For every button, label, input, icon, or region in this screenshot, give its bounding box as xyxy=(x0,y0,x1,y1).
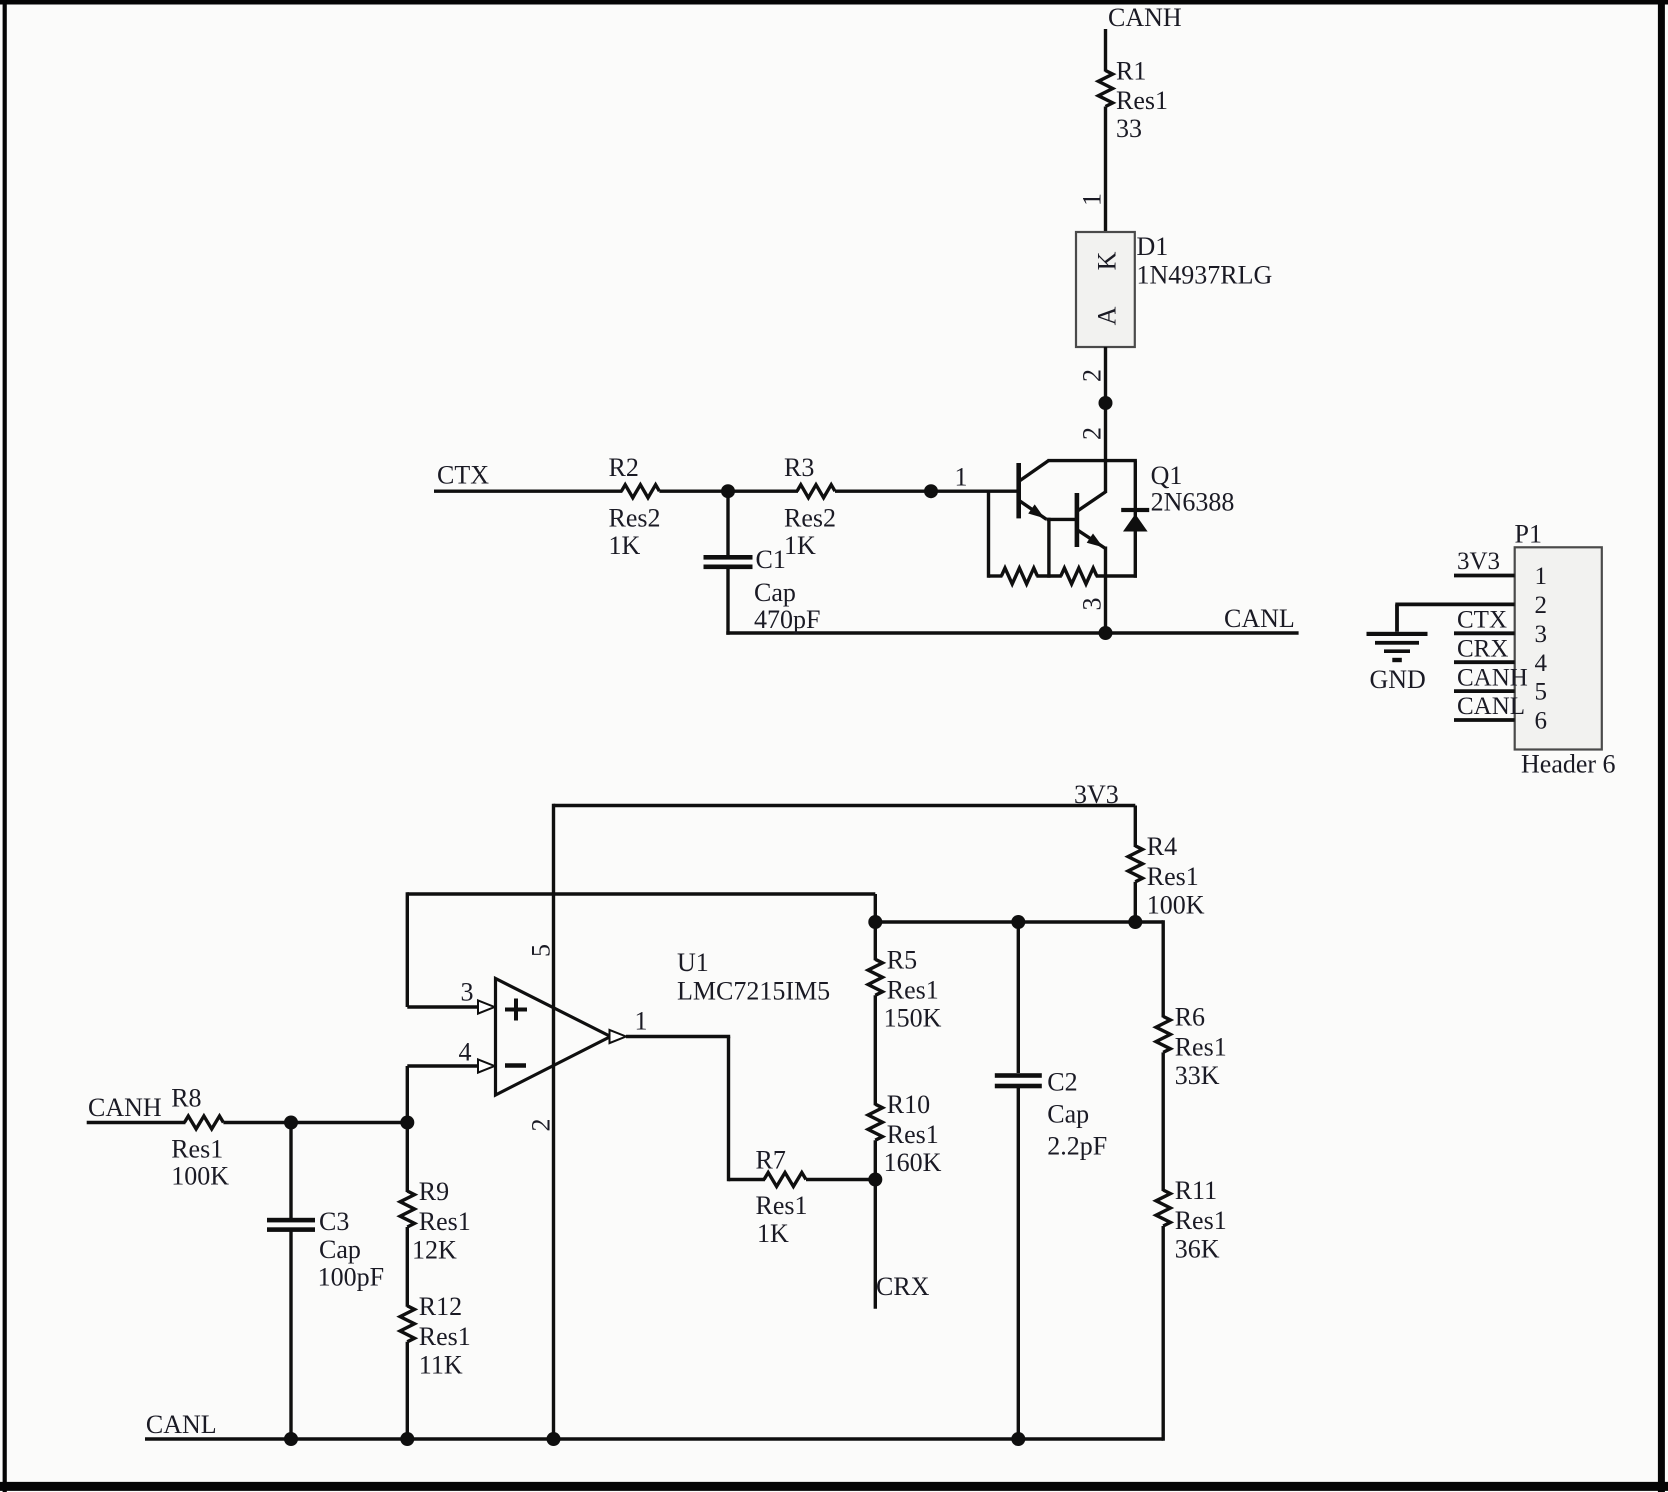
wire R1 to D1 pin1 xyxy=(1104,107,1107,234)
pin 3 (U1) xyxy=(461,978,474,1007)
label P1 xyxy=(1515,520,1542,549)
svg-text:R12: R12 xyxy=(419,1292,462,1321)
svg-text:1K: 1K xyxy=(784,531,816,560)
svg-text:1K: 1K xyxy=(757,1219,789,1248)
label Res1 (R5) xyxy=(887,975,939,1004)
svg-text:Res1: Res1 xyxy=(1175,1032,1227,1061)
wire feedback top xyxy=(407,892,875,895)
wire C3 to CANL xyxy=(289,1231,292,1439)
value 2N6388 (Q1) xyxy=(1151,488,1235,517)
wire R11 to CANL xyxy=(1161,1226,1164,1441)
label Res1 (R1) xyxy=(1116,86,1168,115)
svg-text:3: 3 xyxy=(1078,598,1107,611)
value 33K (R6) xyxy=(1175,1061,1220,1090)
net CANH (top) xyxy=(1108,3,1182,32)
svg-text:R3: R3 xyxy=(784,453,814,482)
label R9 xyxy=(419,1177,449,1206)
label R7 xyxy=(756,1146,786,1175)
resistor R11 xyxy=(1156,1190,1170,1226)
junction node R9 top xyxy=(400,1116,414,1130)
pin 3 arrow (U1) xyxy=(478,1000,495,1013)
label C1 xyxy=(756,545,786,574)
svg-text:12K: 12K xyxy=(412,1236,457,1265)
resistor R8 xyxy=(184,1116,223,1129)
Q1 internal resistor 2 xyxy=(1061,568,1097,584)
junction node C3 top xyxy=(284,1116,298,1130)
svg-text:R7: R7 xyxy=(756,1146,786,1175)
wire R9 to R12 xyxy=(406,1227,409,1307)
wire node to R9 xyxy=(406,1123,409,1193)
junction node C2 top xyxy=(1011,915,1025,929)
wire R3 to node xyxy=(835,490,931,493)
pin 5 (P1) xyxy=(1535,679,1548,706)
transistor Q1 T1 base bar xyxy=(1016,463,1021,518)
wire P1 pin 5 xyxy=(1454,689,1515,693)
svg-text:1K: 1K xyxy=(609,531,641,560)
label R1 xyxy=(1116,57,1146,86)
label Res1 (R12) xyxy=(419,1322,471,1351)
wire rail to R5 xyxy=(874,922,877,960)
svg-text:33K: 33K xyxy=(1175,1061,1220,1090)
pin 5 (U1 V+) xyxy=(527,944,556,957)
svg-text:R10: R10 xyxy=(887,1090,930,1119)
wire P1 pin 4 xyxy=(1454,660,1515,664)
svg-text:1N4937RLG: 1N4937RLG xyxy=(1137,261,1273,290)
resistor R7 xyxy=(764,1173,806,1187)
net CANL (top) xyxy=(1224,604,1295,633)
svg-text:LMC7215IM5: LMC7215IM5 xyxy=(677,977,830,1006)
svg-text:R2: R2 xyxy=(609,453,639,482)
capacitor C2 xyxy=(995,1073,1042,1088)
value 100K (R8) xyxy=(171,1162,229,1191)
svg-text:P1: P1 xyxy=(1515,520,1542,549)
svg-text:R9: R9 xyxy=(419,1177,449,1206)
junction node C3 bottom xyxy=(284,1432,298,1446)
pin name K (D1 cathode) xyxy=(1093,251,1122,270)
value 36K (R11) xyxy=(1175,1235,1220,1264)
value LMC7215IM5 (U1) xyxy=(677,977,830,1006)
svg-text:Q1: Q1 xyxy=(1151,461,1183,490)
label U1 xyxy=(677,948,709,977)
svg-text:3: 3 xyxy=(1535,621,1548,648)
svg-text:Res1: Res1 xyxy=(419,1322,471,1351)
svg-text:C3: C3 xyxy=(319,1207,349,1236)
junction node D1/Q1 xyxy=(1099,396,1113,410)
op-amp minus xyxy=(505,1063,526,1068)
svg-text:Header 6: Header 6 xyxy=(1521,750,1616,779)
value 470pF (C1) xyxy=(754,605,820,634)
svg-text:1: 1 xyxy=(1535,563,1548,590)
value 1N4937RLG (D1) xyxy=(1137,261,1273,290)
junction node R7/R10 xyxy=(868,1173,882,1187)
svg-text:D1: D1 xyxy=(1137,232,1169,261)
Q1 T2 emitter xyxy=(1078,530,1106,548)
wire CANL xyxy=(145,1437,1163,1440)
junction node R12 bottom xyxy=(400,1432,414,1446)
resistor R12 xyxy=(400,1306,414,1342)
label Res1 (R10) xyxy=(887,1120,939,1149)
op-amp U1 body xyxy=(496,979,611,1096)
svg-text:Cap: Cap xyxy=(319,1235,361,1264)
resistor R3 xyxy=(797,485,835,498)
ground symbol xyxy=(1367,632,1428,662)
diode D1 body xyxy=(1076,232,1135,347)
pin 3 (Q1 emitter) xyxy=(1078,598,1107,611)
value 100K (R4) xyxy=(1147,891,1205,920)
svg-text:33: 33 xyxy=(1116,114,1142,143)
wire P1 pin 1 xyxy=(1454,574,1515,578)
svg-text:11K: 11K xyxy=(419,1350,463,1379)
label Cap (C3) xyxy=(319,1235,361,1264)
svg-text:R11: R11 xyxy=(1175,1176,1217,1205)
wire R7 to node xyxy=(806,1178,875,1181)
pin 2 (D1) xyxy=(1078,369,1107,382)
wire U1 pin3 input xyxy=(407,1005,479,1008)
label Res1 (R8) xyxy=(171,1135,223,1164)
junction node C2 bottom xyxy=(1011,1432,1025,1446)
pin 1 (U1) xyxy=(635,1007,648,1036)
svg-text:A: A xyxy=(1093,306,1122,325)
wire T1 emitter to T2 base xyxy=(1047,518,1077,521)
wire CANH to R1 xyxy=(1104,29,1107,72)
wire pin4 drop to CANH node xyxy=(406,1066,409,1123)
svg-text:Res2: Res2 xyxy=(609,504,661,533)
label Cap (C1) xyxy=(754,578,796,607)
label R6 xyxy=(1175,1002,1205,1031)
svg-text:CANH: CANH xyxy=(1457,664,1528,691)
capacitor C3 xyxy=(267,1218,315,1232)
svg-text:Res1: Res1 xyxy=(887,1120,939,1149)
svg-text:4: 4 xyxy=(459,1038,472,1067)
label C2 xyxy=(1047,1068,1077,1097)
label R2 xyxy=(609,453,639,482)
svg-text:GND: GND xyxy=(1370,665,1426,694)
junction node R4 bottom xyxy=(1128,915,1142,929)
label GND xyxy=(1370,665,1426,694)
Q1 T1 collector xyxy=(1020,461,1137,481)
svg-text:C2: C2 xyxy=(1047,1068,1077,1097)
svg-text:R6: R6 xyxy=(1175,1002,1205,1031)
label R3 xyxy=(784,453,814,482)
wire D1 to Q1 collector xyxy=(1104,347,1107,493)
svg-text:CTX: CTX xyxy=(1457,607,1507,634)
net CRX (stub) xyxy=(876,1272,930,1301)
net CANH (bottom) xyxy=(88,1093,162,1122)
label R10 xyxy=(887,1090,930,1119)
svg-text:CRX: CRX xyxy=(876,1272,930,1301)
wire T1 emitter drop xyxy=(1047,518,1050,578)
svg-text:C1: C1 xyxy=(756,545,786,574)
wire Q1 diode branch xyxy=(1134,461,1137,578)
svg-text:CANL: CANL xyxy=(1457,693,1525,720)
svg-text:CTX: CTX xyxy=(437,461,489,490)
wire R12 to CANL xyxy=(406,1342,409,1439)
connector P1 body xyxy=(1515,547,1602,749)
label D1 xyxy=(1137,232,1169,261)
Q1 T2 collector xyxy=(1078,492,1106,511)
label R5 xyxy=(887,945,917,974)
wire comparator rail xyxy=(875,920,1163,923)
svg-text:2: 2 xyxy=(1078,427,1107,440)
label Res1 (R11) xyxy=(1175,1206,1227,1235)
svg-text:100pF: 100pF xyxy=(318,1263,384,1292)
Q1 internal resistor 1 xyxy=(1001,568,1037,584)
svg-text:R8: R8 xyxy=(171,1084,201,1113)
svg-text:160K: 160K xyxy=(884,1148,942,1177)
pin 2 (U1 V-) xyxy=(527,1119,556,1132)
wire R6 to R11 xyxy=(1161,1052,1164,1191)
Q1 internal diode xyxy=(1123,514,1148,532)
wire CANH to R8 xyxy=(87,1121,186,1124)
svg-text:Res1: Res1 xyxy=(1175,1206,1227,1235)
resistor R1 xyxy=(1098,71,1112,107)
capacitor C1 xyxy=(704,555,753,569)
wire 3V3 to R4 xyxy=(1134,806,1137,848)
wire R4 to rail xyxy=(1134,882,1137,922)
svg-text:5: 5 xyxy=(1535,679,1548,706)
svg-text:6: 6 xyxy=(1535,708,1548,735)
label R4 xyxy=(1147,832,1177,861)
svg-text:Res1: Res1 xyxy=(1116,86,1168,115)
resistor R6 xyxy=(1156,1016,1170,1052)
wire rail to C2 xyxy=(1017,922,1020,1073)
junction node supply bottom xyxy=(547,1432,561,1446)
svg-text:2: 2 xyxy=(1535,592,1548,619)
label Res1 (R7) xyxy=(756,1191,808,1220)
wire node to C3 xyxy=(289,1123,292,1223)
junction node R5 top xyxy=(868,915,882,929)
svg-text:2.2pF: 2.2pF xyxy=(1047,1132,1107,1161)
pin 2 (P1) xyxy=(1535,592,1548,619)
net CTX (P1) xyxy=(1457,607,1507,634)
pin 2 (Q1 collector) xyxy=(1078,427,1107,440)
label Res2 (R3) xyxy=(784,504,836,533)
value 1K (R7) xyxy=(757,1219,789,1248)
net CTX xyxy=(437,461,489,490)
svg-text:1: 1 xyxy=(635,1007,648,1036)
wire R10 to CRX stub xyxy=(874,1140,877,1309)
svg-text:CRX: CRX xyxy=(1457,635,1508,662)
wire P1 pin 3 xyxy=(1454,631,1515,635)
svg-text:Res1: Res1 xyxy=(756,1191,808,1220)
svg-text:100K: 100K xyxy=(1147,891,1205,920)
svg-text:CANL: CANL xyxy=(1224,604,1295,633)
svg-text:Res2: Res2 xyxy=(784,504,836,533)
value 100pF (C3) xyxy=(318,1263,384,1292)
wire 3V3 rail xyxy=(554,804,1136,807)
svg-text:U1: U1 xyxy=(677,948,709,977)
svg-text:CANL: CANL xyxy=(146,1410,217,1439)
svg-text:4: 4 xyxy=(1535,650,1548,677)
resistor R4 xyxy=(1128,846,1142,882)
resistor R9 xyxy=(400,1191,414,1227)
svg-text:R5: R5 xyxy=(887,945,917,974)
label R11 xyxy=(1175,1176,1217,1205)
svg-text:2: 2 xyxy=(527,1119,556,1132)
wire feedback left drop xyxy=(406,892,409,1007)
svg-text:R1: R1 xyxy=(1116,57,1146,86)
svg-text:Cap: Cap xyxy=(1047,1100,1089,1129)
wire R8 to nodes xyxy=(223,1121,407,1124)
label Header 6 (P1) xyxy=(1521,750,1616,779)
wire Q1 emitter to CANL xyxy=(1104,547,1107,634)
pin 6 (P1) xyxy=(1535,708,1548,735)
junction node R2/R3/C1 xyxy=(721,484,735,498)
pin 1 (Q1 base) xyxy=(955,463,968,492)
wire U1 output xyxy=(626,1037,765,1182)
svg-text:36K: 36K xyxy=(1175,1235,1220,1264)
wire C2 to CANL xyxy=(1017,1088,1020,1439)
wire C1 to CANL xyxy=(726,568,1298,635)
pin 4 (P1) xyxy=(1535,650,1548,677)
value 2.2pF (C2) xyxy=(1047,1132,1107,1161)
wire CTX to R2 xyxy=(434,490,622,493)
wire node to C1 xyxy=(726,491,729,556)
Q1 internal diode bar xyxy=(1121,508,1149,512)
junction node Q1 emitter/CANL xyxy=(1099,626,1113,640)
svg-text:5: 5 xyxy=(527,944,556,957)
junction node R3/Q1 base xyxy=(924,484,938,498)
resistor R10 xyxy=(868,1104,882,1140)
svg-text:1: 1 xyxy=(955,463,968,492)
svg-text:R4: R4 xyxy=(1147,832,1177,861)
net CANH (P1) xyxy=(1457,664,1528,691)
label Cap (C2) xyxy=(1047,1100,1089,1129)
value 150K (R5) xyxy=(884,1003,942,1032)
pin 1 arrow (U1 output) xyxy=(610,1030,627,1043)
wire node to Q1 base xyxy=(931,490,1019,493)
wire P1 pin 2 to GND xyxy=(1395,604,1514,631)
wire rail corner to R6 xyxy=(1161,920,1164,1017)
label Res1 (R9) xyxy=(419,1207,471,1236)
pin 4 arrow (U1) xyxy=(478,1059,495,1072)
svg-text:Res1: Res1 xyxy=(171,1135,223,1164)
pin 4 (U1) xyxy=(459,1038,472,1067)
pin 1 (D1) xyxy=(1078,193,1107,206)
svg-text:K: K xyxy=(1093,251,1122,270)
net CRX (P1) xyxy=(1457,635,1508,662)
svg-text:3: 3 xyxy=(461,978,474,1007)
wire R5 to R10 xyxy=(874,995,877,1105)
net 3V3 (P1) xyxy=(1457,548,1500,575)
wire U1 pin4 input xyxy=(407,1064,479,1067)
svg-text:2: 2 xyxy=(1078,369,1107,382)
net CANL (P1) xyxy=(1457,693,1525,720)
value 160K (R10) xyxy=(884,1148,942,1177)
svg-text:1: 1 xyxy=(1078,193,1107,206)
wire node to R3 xyxy=(728,490,798,493)
resistor R5 xyxy=(868,959,882,995)
label Res2 (R2) xyxy=(609,504,661,533)
wire R2 to node xyxy=(659,490,728,493)
pin name A (D1 anode) xyxy=(1093,306,1122,325)
value 12K (R9) xyxy=(412,1236,457,1265)
svg-text:Res1: Res1 xyxy=(887,975,939,1004)
label C3 xyxy=(319,1207,349,1236)
svg-text:Res1: Res1 xyxy=(1147,862,1199,891)
label R12 xyxy=(419,1292,462,1321)
transistor Q1 T2 base bar xyxy=(1075,493,1080,547)
pin 1 (P1) xyxy=(1535,563,1548,590)
op-amp plus xyxy=(505,999,527,1021)
svg-text:150K: 150K xyxy=(884,1003,942,1032)
svg-text:CANH: CANH xyxy=(1108,3,1182,32)
wire op-amp supply vertical xyxy=(552,804,555,1439)
wire P1 pin 6 xyxy=(1454,718,1515,722)
svg-text:470pF: 470pF xyxy=(754,605,820,634)
value 1K (R3) xyxy=(784,531,816,560)
net CANL (bottom) xyxy=(146,1410,217,1439)
pin 3 (P1) xyxy=(1535,621,1548,648)
value 11K (R12) xyxy=(419,1350,463,1379)
resistor R2 xyxy=(621,485,659,498)
value 1K (R2) xyxy=(609,531,641,560)
wire Q1 base drop xyxy=(987,491,990,578)
svg-text:3V3: 3V3 xyxy=(1457,548,1500,575)
label Res1 (R6) xyxy=(1175,1032,1227,1061)
label R8 xyxy=(171,1084,201,1113)
label Q1 xyxy=(1151,461,1183,490)
svg-text:Res1: Res1 xyxy=(419,1207,471,1236)
wire feedback right drop xyxy=(874,894,877,922)
svg-text:100K: 100K xyxy=(171,1162,229,1191)
svg-text:CANH: CANH xyxy=(88,1093,162,1122)
net 3V3 (rail) xyxy=(1074,780,1119,809)
svg-text:2N6388: 2N6388 xyxy=(1151,488,1235,517)
value 33 (R1) xyxy=(1116,114,1142,143)
label Res1 (R4) xyxy=(1147,862,1199,891)
Q1 bottom rail xyxy=(989,574,1137,577)
Q1 T1 emitter xyxy=(1020,501,1047,520)
svg-text:Cap: Cap xyxy=(754,578,796,607)
